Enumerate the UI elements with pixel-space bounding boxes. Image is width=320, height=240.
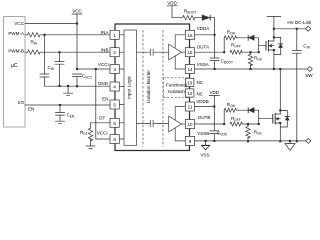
svg-text:OUTA: OUTA xyxy=(197,45,210,50)
svg-text:EN: EN xyxy=(28,107,34,112)
svg-text:Input Logic: Input Logic xyxy=(127,75,132,99)
svg-text:VDD: VDD xyxy=(209,90,219,95)
svg-text:14: 14 xyxy=(187,67,193,72)
svg-text:GND: GND xyxy=(98,81,109,86)
svg-text:Isolation Barrier: Isolation Barrier xyxy=(146,70,151,103)
svg-text:VCC: VCC xyxy=(72,9,82,14)
svg-text:OUTB: OUTB xyxy=(198,115,211,120)
svg-text:VSSA: VSSA xyxy=(197,62,210,67)
svg-text:SW: SW xyxy=(305,73,313,78)
svg-text:VDDB: VDDB xyxy=(196,99,209,104)
svg-text:VSS: VSS xyxy=(200,153,209,158)
svg-text:DT: DT xyxy=(99,116,105,121)
svg-text:Functional: Functional xyxy=(166,83,187,88)
svg-text:INB: INB xyxy=(101,48,109,53)
svg-text:13: 13 xyxy=(187,81,193,86)
svg-text:15: 15 xyxy=(187,50,193,55)
svg-text:NC: NC xyxy=(197,80,204,85)
svg-text:VSSB: VSSB xyxy=(197,131,209,136)
svg-text:VDD: VDD xyxy=(167,1,177,6)
svg-text:Isolation: Isolation xyxy=(168,89,185,94)
svg-text:PWM-B: PWM-B xyxy=(8,49,24,54)
svg-text:INA: INA xyxy=(101,30,110,35)
svg-text:VCCI: VCCI xyxy=(97,130,108,135)
svg-text:11: 11 xyxy=(188,105,193,110)
svg-text:I/O: I/O xyxy=(18,100,25,105)
svg-text:VDDA: VDDA xyxy=(197,26,211,31)
svg-text:VCCI: VCCI xyxy=(98,62,109,67)
svg-text:PWM-A: PWM-A xyxy=(8,31,25,36)
svg-text:EN: EN xyxy=(102,97,108,102)
svg-text:NC: NC xyxy=(197,92,204,97)
svg-text:HV DC-Link: HV DC-Link xyxy=(287,20,312,25)
svg-text:10: 10 xyxy=(187,122,193,127)
svg-text:16: 16 xyxy=(187,33,193,38)
svg-text:12: 12 xyxy=(187,91,193,96)
svg-text:µC: µC xyxy=(11,63,18,69)
svg-text:VCC: VCC xyxy=(14,21,24,26)
